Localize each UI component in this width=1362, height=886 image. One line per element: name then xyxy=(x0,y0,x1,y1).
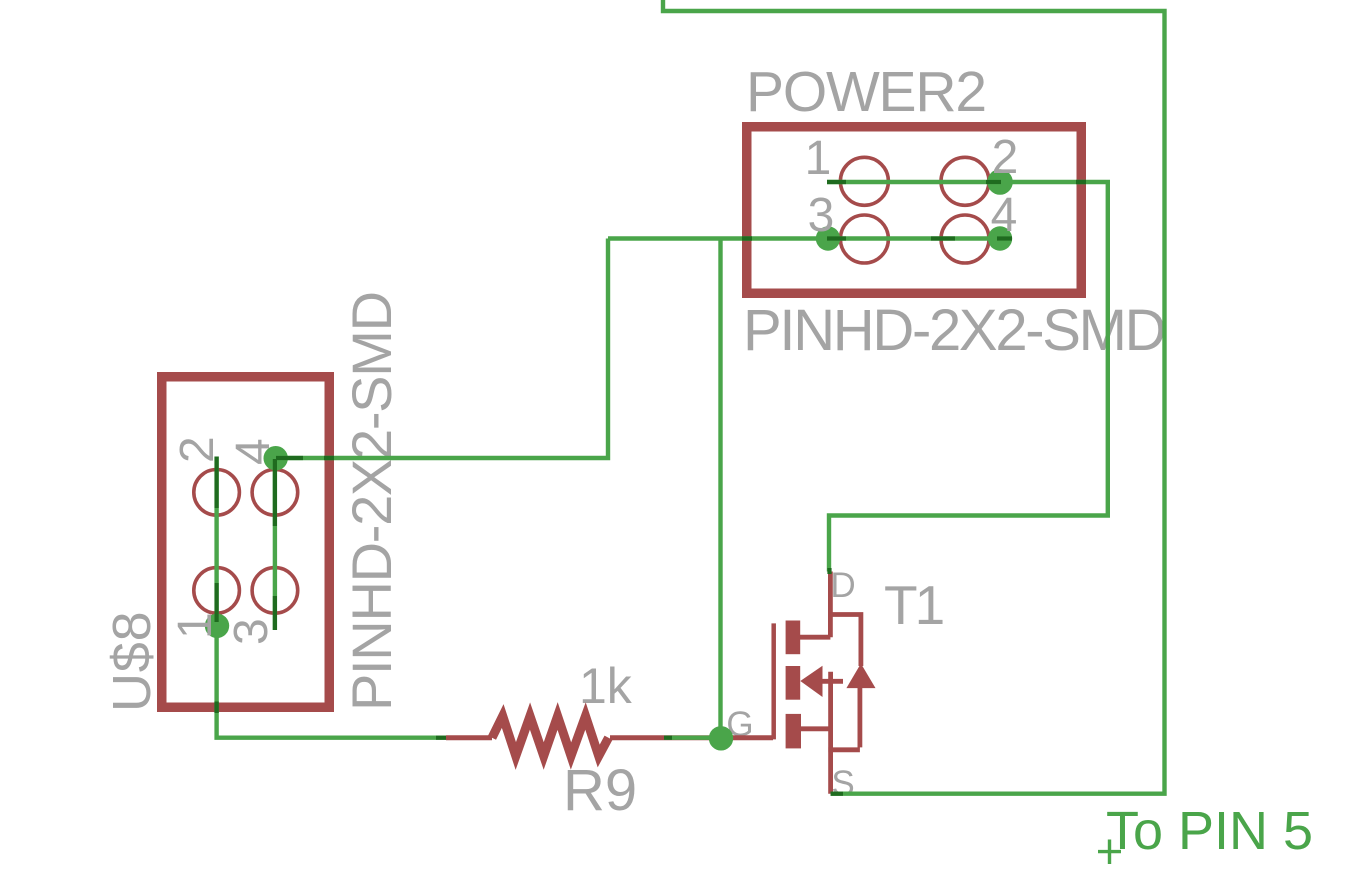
svg-text:4: 4 xyxy=(991,189,1018,242)
svg-text:To PIN 5: To PIN 5 xyxy=(1106,801,1313,861)
svg-text:POWER2: POWER2 xyxy=(746,60,986,124)
svg-text:2: 2 xyxy=(992,131,1019,184)
svg-text:4: 4 xyxy=(227,438,280,465)
svg-text:R9: R9 xyxy=(563,758,637,823)
svg-text:PINHD-2X2-SMD: PINHD-2X2-SMD xyxy=(743,298,1165,363)
svg-text:1k: 1k xyxy=(579,658,633,714)
svg-text:PINHD-2X2-SMD: PINHD-2X2-SMD xyxy=(340,292,403,711)
svg-text:2: 2 xyxy=(171,436,224,463)
svg-text:U$8: U$8 xyxy=(102,611,162,712)
svg-text:1: 1 xyxy=(169,612,222,639)
svg-text:3: 3 xyxy=(225,618,278,645)
svg-text:S: S xyxy=(831,764,854,803)
svg-text:T1: T1 xyxy=(884,574,943,636)
svg-text:1: 1 xyxy=(805,132,832,185)
svg-text:D: D xyxy=(830,566,855,605)
svg-text:3: 3 xyxy=(808,189,835,242)
